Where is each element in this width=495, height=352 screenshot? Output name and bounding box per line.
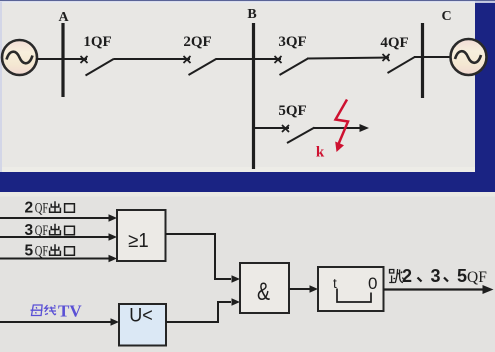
generator G1 xyxy=(2,40,37,75)
svg-text:2: 2 xyxy=(25,200,34,217)
wire G1 to bus A xyxy=(36,58,62,60)
svg-text:QF: QF xyxy=(467,269,487,286)
bus C xyxy=(421,23,424,98)
breaker 3QF blade xyxy=(280,59,308,75)
light strip below band xyxy=(0,192,495,197)
label trip 2,3,5QF xyxy=(389,266,487,286)
svg-text:5: 5 xyxy=(457,266,467,286)
wire bus A to 1QF xyxy=(64,58,87,60)
breaker 1QF cross xyxy=(81,56,88,63)
OR gate >=1 xyxy=(117,210,166,261)
output wire trip xyxy=(384,285,494,294)
svg-text:U<: U< xyxy=(129,306,153,327)
svg-text:2: 2 xyxy=(402,266,412,286)
breaker 1QF blade xyxy=(86,59,115,76)
svg-text:2QF: 2QF xyxy=(183,34,211,50)
svg-text:3: 3 xyxy=(25,222,34,239)
input line 5QF chukou xyxy=(0,255,117,262)
svg-text:k: k xyxy=(316,145,325,161)
svg-text:3: 3 xyxy=(431,266,441,286)
wire bus C to G2 xyxy=(424,56,451,58)
breaker 5QF cross xyxy=(282,125,289,132)
top border line xyxy=(0,0,495,1)
AND gate & xyxy=(240,263,289,313)
timer t-0 xyxy=(318,267,384,311)
wire 5QF feeder with arrow xyxy=(314,124,369,132)
horizontal navy separator band xyxy=(0,172,495,192)
wire bus B to 5QF xyxy=(255,127,289,129)
breaker 3QF cross xyxy=(275,56,282,63)
svg-text:5QF: 5QF xyxy=(278,103,306,119)
svg-text:&: & xyxy=(257,278,270,306)
svg-text:TV: TV xyxy=(58,302,82,321)
svg-text:≥1: ≥1 xyxy=(128,230,149,252)
wire 4QF to bus C xyxy=(414,56,423,58)
input line 2QF chukou xyxy=(0,214,117,221)
breaker 2QF cross xyxy=(184,56,191,63)
svg-text:C: C xyxy=(441,9,451,24)
svg-text:B: B xyxy=(247,7,256,22)
breaker 4QF blade xyxy=(388,57,416,73)
svg-text:4QF: 4QF xyxy=(380,35,408,51)
wire OR to AND xyxy=(166,234,241,283)
label 2QF chukou xyxy=(25,200,75,217)
generator G2 xyxy=(451,39,487,75)
breaker 2QF blade xyxy=(189,59,217,75)
breaker 5QF blade xyxy=(287,128,315,144)
bus A xyxy=(61,23,64,97)
undervoltage element U< xyxy=(119,304,166,346)
svg-text:QF: QF xyxy=(35,244,49,260)
wire 1QF to 2QF xyxy=(114,58,190,60)
light strip above band xyxy=(0,167,495,172)
wire AND to timer xyxy=(289,285,318,292)
bus B xyxy=(252,23,255,169)
svg-text:QF: QF xyxy=(35,223,49,239)
wire bus B to 3QF xyxy=(255,58,281,60)
svg-text:0: 0 xyxy=(368,274,377,293)
background top section xyxy=(0,0,495,172)
svg-text:5: 5 xyxy=(25,243,34,260)
input line muxian TV xyxy=(0,318,119,325)
breaker 4QF cross xyxy=(383,54,390,61)
fault lightning bolt xyxy=(335,100,348,153)
label muxian TV xyxy=(31,302,83,321)
label 3QF chukou xyxy=(25,222,75,239)
wire U< to AND xyxy=(166,298,240,322)
input line 3QF chukou xyxy=(0,233,117,240)
wire 3QF to 4QF xyxy=(307,58,389,59)
svg-text:QF: QF xyxy=(35,201,49,217)
svg-text:1QF: 1QF xyxy=(83,34,111,50)
background bottom section xyxy=(0,192,495,352)
label 5QF chukou xyxy=(25,243,75,260)
svg-text:A: A xyxy=(58,10,69,25)
svg-text:3QF: 3QF xyxy=(278,34,306,50)
left border strip xyxy=(0,2,2,172)
wire 2QF to bus B xyxy=(216,58,254,60)
right navy sidebar xyxy=(475,0,495,192)
